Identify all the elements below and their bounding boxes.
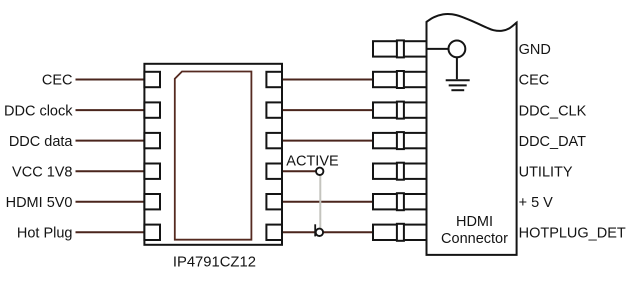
- svg-text:GND: GND: [519, 42, 551, 58]
- svg-text:UTILITY: UTILITY: [519, 164, 573, 180]
- svg-text:Hot Plug: Hot Plug: [17, 226, 73, 242]
- svg-text:DDC data: DDC data: [9, 134, 74, 150]
- svg-text:CEC: CEC: [519, 73, 550, 89]
- svg-text:ACTIVE: ACTIVE: [286, 153, 339, 169]
- svg-text:HDMI 5V0: HDMI 5V0: [6, 195, 73, 211]
- svg-text:+ 5 V: + 5 V: [519, 195, 554, 211]
- svg-text:DDC_CLK: DDC_CLK: [519, 103, 587, 119]
- svg-text:DDC_DAT: DDC_DAT: [519, 134, 587, 150]
- svg-text:IP4791CZ12: IP4791CZ12: [173, 255, 256, 271]
- svg-text:Connector: Connector: [441, 231, 508, 247]
- svg-text:HOTPLUG_DET: HOTPLUG_DET: [519, 226, 626, 242]
- svg-text:CEC: CEC: [42, 73, 73, 89]
- svg-text:VCC 1V8: VCC 1V8: [12, 164, 72, 180]
- svg-text:HDMI: HDMI: [456, 214, 493, 230]
- svg-text:DDC clock: DDC clock: [4, 103, 73, 119]
